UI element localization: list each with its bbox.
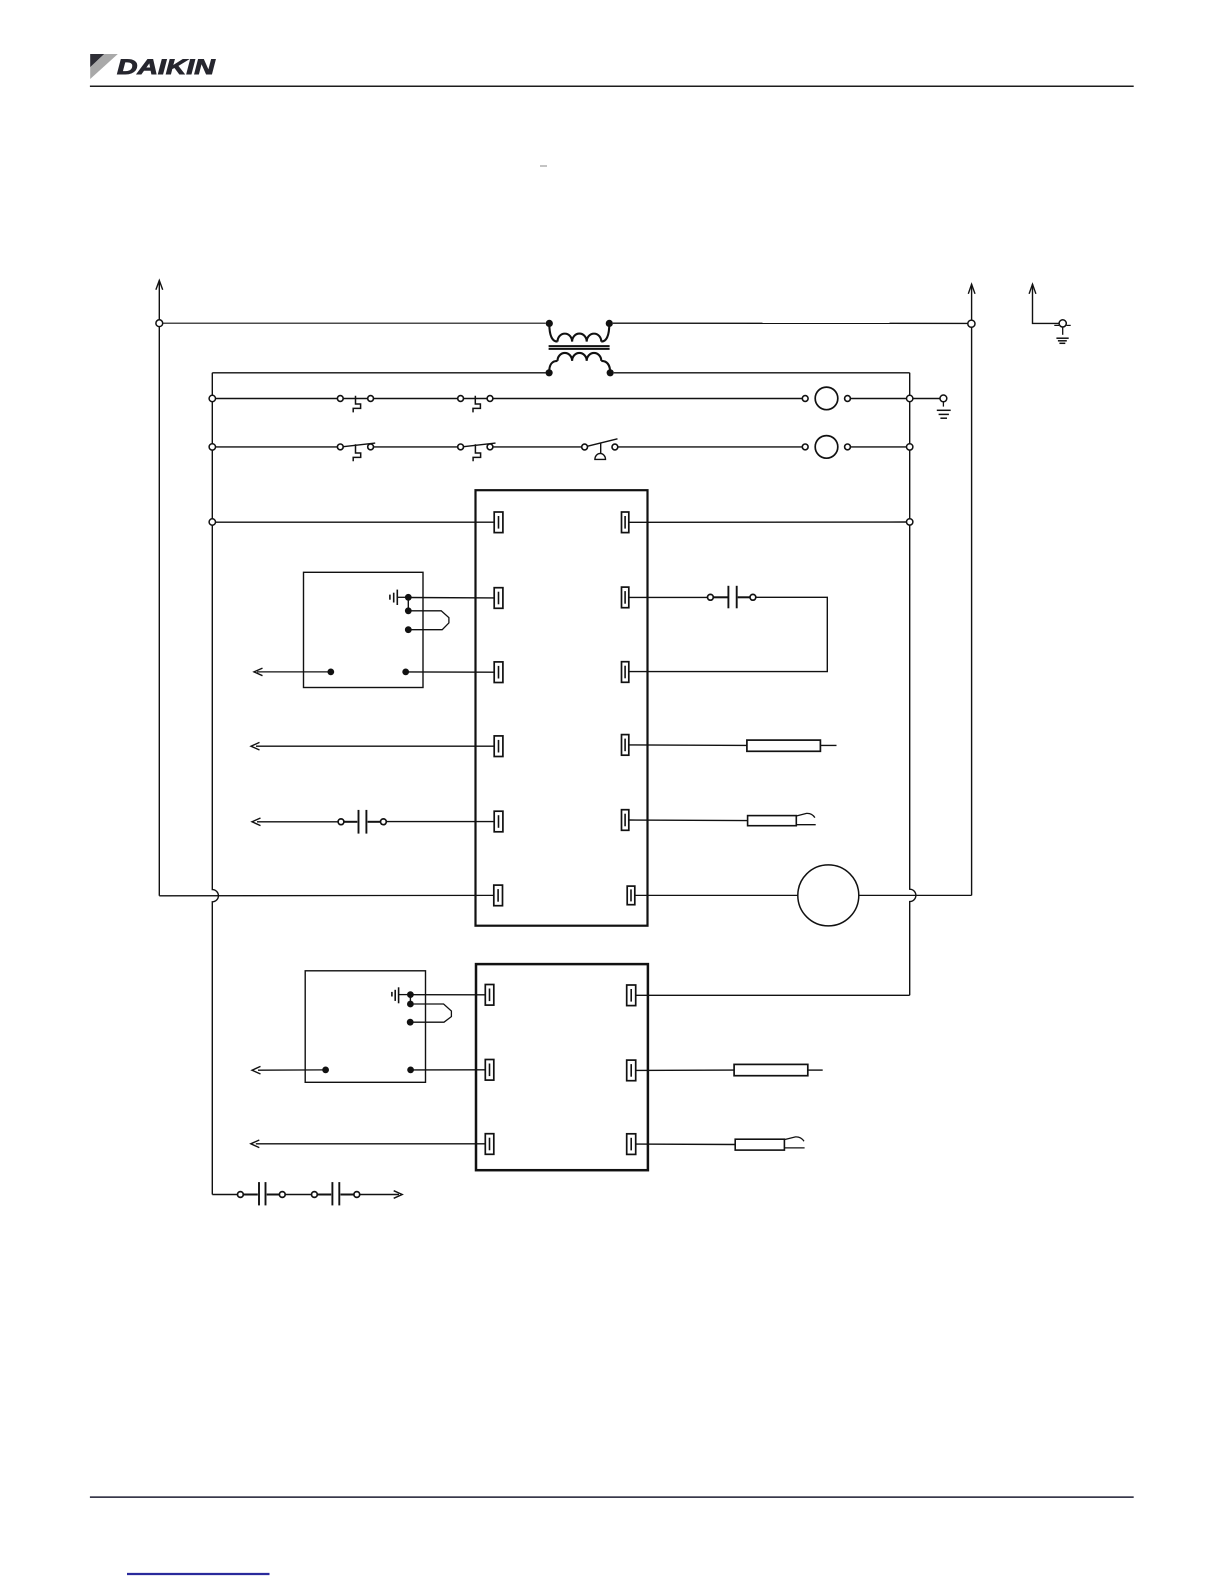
wire secondary left to bus — [212, 372, 545, 374]
node dot3 A2P — [405, 626, 412, 633]
junction node line2 on x909 bus — [907, 444, 913, 450]
resistor R1 row4 right — [629, 740, 837, 751]
wire dot4 to left arrow — [257, 671, 331, 673]
DAIKIN logo mark dark triangle — [90, 54, 104, 67]
thermal switch S3 contacts — [337, 444, 343, 450]
link dot1-dot2 — [409, 995, 411, 1004]
PCB A3P right pin row1 — [627, 985, 636, 1006]
PCB A3P right pin row2 — [627, 1060, 636, 1081]
left arrow A3P row3 — [251, 1140, 259, 1148]
transformer T1 — [546, 320, 614, 377]
footer blue link line — [127, 1573, 270, 1575]
node dot2 A4P — [407, 1001, 414, 1008]
DAIKIN logo text — [117, 55, 216, 79]
wire top primary left — [163, 322, 546, 324]
PCB A3P left pin row1 — [485, 985, 494, 1006]
terminal circle on L2 — [968, 320, 975, 327]
PCB A1P left pin row5 — [494, 811, 503, 832]
thermal switch S4 overload symbol — [473, 444, 481, 461]
wire dot5 to A3P row2 — [411, 1069, 486, 1071]
earth terminal branch top right — [1029, 284, 1071, 335]
PCB A1P right pin row4 — [622, 735, 629, 756]
bus vertical x909 with hop — [910, 373, 916, 996]
wire motor to L2 — [859, 894, 972, 896]
wire dot1 to A3P row1 — [410, 994, 485, 996]
wire A1P row6 to motor — [635, 894, 798, 896]
PCB A1P right pin row1 — [622, 512, 629, 533]
node dot5 A2P — [402, 669, 409, 676]
jumper loop A4P — [410, 1004, 451, 1022]
control unit box A4P outline — [305, 971, 425, 1083]
antenna ground symbol A2P — [390, 590, 405, 605]
node L1 left supply vertical with arrow — [156, 280, 163, 895]
capacitor C2 row2 right with loop to row3 — [629, 586, 828, 672]
PCB A3P left pin row3 — [485, 1134, 494, 1155]
node dot2 A2P — [405, 607, 412, 614]
node L2 right supply vertical with arrow — [968, 284, 975, 895]
node dot3 A4P — [407, 1019, 414, 1026]
junction node line2 on x212 bus — [209, 444, 215, 450]
node dot1 A2P — [405, 594, 412, 601]
earth terminal line1 — [940, 395, 947, 402]
node dot5 A4P — [407, 1067, 414, 1074]
PCB A1P right pin row3 — [622, 662, 629, 683]
thermistor R2T row5 right — [629, 813, 816, 825]
jumper loop A2P — [408, 611, 449, 630]
thermal switch S4 blade — [464, 443, 496, 447]
junction node row1 on x212 bus — [209, 519, 215, 525]
row1 wire left of PCB A1P — [216, 521, 495, 523]
junction node line1 on x212 bus — [209, 395, 215, 401]
ground symbol top right — [1056, 338, 1068, 343]
faint title dash — [540, 165, 547, 167]
control line 2 wire segments — [216, 446, 907, 448]
antenna ground symbol A4P — [392, 987, 407, 1003]
pushbutton switch S5 actuator — [595, 443, 606, 459]
junction node row1 on x909 bus — [907, 519, 913, 525]
lamp H1 — [802, 396, 808, 402]
PCB A1P left pin row3 — [494, 662, 503, 683]
wire dot5 to A1P row3 — [406, 671, 495, 673]
thermal switch S3 overload symbol — [353, 444, 361, 461]
node dot4 A4P — [322, 1067, 329, 1074]
row4 wire left with arrow — [256, 745, 494, 747]
ground symbol line1 — [937, 402, 951, 418]
protector switch S2 overload symbol — [473, 396, 480, 413]
header rule — [90, 85, 1134, 87]
PCB A1P left pin row2 — [494, 588, 503, 609]
control line 1 wire segments — [216, 398, 941, 400]
wire top primary right — [613, 322, 968, 324]
terminal circle earth branch — [1059, 320, 1066, 327]
PCB A3P left pin row2 — [485, 1060, 494, 1081]
row1 wire right of PCB A1P — [629, 521, 907, 523]
lamp H2 — [802, 444, 808, 450]
left arrow row3 — [254, 668, 263, 676]
control unit box A2P outline — [304, 572, 424, 687]
protector switch S1 contacts — [337, 396, 343, 402]
left arrow A4P row2 — [252, 1066, 261, 1074]
resistor R3 A3P row2 right — [636, 1064, 823, 1075]
DAIKIN logo mark gray band — [90, 54, 118, 79]
row6 wire left from L1 corner — [159, 894, 494, 896]
thermal switch S3 blade — [343, 443, 375, 447]
protector switch S1 overload symbol — [353, 396, 360, 413]
bus vertical x212 with hop — [212, 373, 218, 1195]
pushbutton switch S5 blade — [588, 439, 618, 446]
link dot1-dot2 — [407, 597, 409, 611]
left arrow row4 — [251, 742, 260, 750]
PCB A1P right pin row6 — [627, 886, 635, 905]
wire dot4 to left arrow — [258, 1069, 326, 1071]
PCB A1P right pin row2 — [622, 587, 629, 608]
node dot1 A4P — [407, 991, 414, 998]
PCB A1P left pin row6 — [494, 885, 503, 906]
right arrow bottom line — [394, 1191, 403, 1199]
PCB A3P outline — [476, 964, 648, 1170]
PCB A1P left pin row4 — [494, 736, 503, 757]
PCB A3P right pin row3 — [627, 1134, 636, 1155]
bottom signal line with capacitors — [212, 1182, 399, 1205]
thermistor R4T A3P row3 right — [636, 1137, 805, 1150]
wire A3P row3 left with arrow — [256, 1143, 485, 1145]
PCB A1P outline — [476, 490, 648, 926]
svg-text:DAIKIN: DAIKIN — [117, 55, 216, 79]
pushbutton switch S5 contacts — [582, 444, 588, 450]
wire secondary right to bus — [614, 372, 910, 374]
terminal circle on L1 — [156, 320, 163, 327]
row5 capacitor C1 with terminals — [257, 810, 494, 834]
left arrow row5 — [252, 818, 261, 826]
PCB A1P right pin row5 — [622, 810, 629, 831]
wire dot1 to A1P row2 — [408, 597, 494, 599]
thermal switch S4 contacts — [458, 444, 464, 450]
junction node line1 on x909 bus — [907, 395, 913, 401]
fan motor M1F — [798, 865, 859, 926]
PCB A1P left pin row1 — [494, 512, 503, 533]
protector switch S2 contacts — [458, 396, 464, 402]
wire x909 bus to PCB A3P row1 — [636, 994, 910, 996]
footer rule — [90, 1496, 1134, 1498]
node dot4 A2P — [327, 669, 334, 676]
